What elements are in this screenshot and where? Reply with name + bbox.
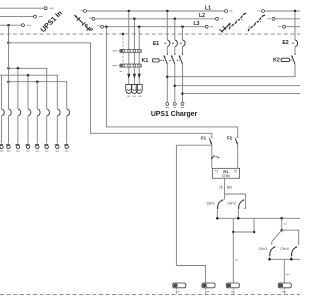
wire input phase 1 [0,7,54,9]
label L2 [199,13,205,19]
wire feeder drop [8,25,10,81]
wire charger lead A with plug arrow [127,67,130,84]
switch S2 city-power blades [220,23,231,32]
label branch 4 [26,150,30,152]
wire charger drop C [138,27,140,50]
wire rail1 [9,68,47,70]
connector branch 2 outlet [6,144,10,148]
connector branch 6 outlet [44,144,48,148]
connector charger plug C [136,85,142,94]
terminal S2 in phase3 [205,25,213,28]
wire gen phase3 [285,26,300,28]
coil K1a [202,283,215,288]
label plug C [138,95,141,97]
svg-text:F1: F1 [201,136,207,141]
contact CH-1 [217,194,225,218]
node L3 contactor tap [181,25,184,28]
wire branch 6 upper [46,68,48,108]
switch Q1 label UPS1 In [38,8,64,34]
terminal charger L3 [181,102,184,107]
svg-text:UPS1 In: UPS1 In [38,8,64,34]
label F2 [227,136,233,141]
node gen bus left [268,258,271,261]
connector charger plug A [126,85,132,94]
node gen bus right [290,258,293,261]
connector branch 3 outlet [15,144,19,148]
wire K2 dashed stub [283,288,285,294]
wire L3 run [103,26,205,28]
wire K1 pole2 drop upper [174,19,176,40]
wire E2-K2 link [294,47,296,54]
wire rail2 [0,75,57,77]
wire K1a dashed stub [205,288,207,294]
wire branch 8 lower [66,116,68,143]
symbol rectifier mark on F1 wire [211,155,219,158]
wire strip link C [138,53,140,65]
terminal S2 in phase2 [216,17,224,20]
wire control bus [217,217,300,219]
node rail1 left [7,67,10,70]
label K1a [206,291,210,293]
label L3 [193,21,199,27]
wire K1 pole1 drop upper [166,11,168,40]
contactor K2 link box [281,58,293,61]
contact CH-2 [238,200,244,219]
svg-text:CH=2: CH=2 [228,201,236,205]
terminal S2 out phase3 [278,25,285,28]
coil T1 [173,283,186,288]
terminal strip X2 [113,64,142,67]
label L tiny [120,71,123,73]
terminal charger L1 [166,102,169,107]
node F1 feed tap [7,42,10,45]
node control bus T tap [280,217,283,220]
label CH-1 [207,201,215,205]
svg-text:L1: L1 [205,5,211,11]
wire E2 drop upper [294,11,296,40]
terminal input phase 3 [22,24,25,27]
wire branch 2 upper [8,82,10,109]
svg-text:UPS1 Charger: UPS1 Charger [151,111,198,118]
label NO [227,186,232,190]
node L1 charger tap [128,10,131,13]
wire branch 7 upper [56,75,58,109]
node bus1 tap [166,75,169,78]
label plug B [133,95,136,97]
svg-text:K1: K1 [142,58,149,64]
contactor K2 blade [292,54,296,65]
label plug A [127,95,130,97]
breaker E1 pole1 arc [165,40,170,47]
svg-text:L2: L2 [199,13,205,19]
connector branch 8 outlet [64,144,68,148]
label branch 6 [45,150,49,152]
svg-text:CH=4: CH=4 [280,247,288,251]
svg-text:*1: *1 [215,170,218,174]
panel boundary dashed line bottom [0,294,300,296]
connector branch 7 outlet [55,144,59,148]
node L1 contactor tap [166,10,169,13]
terminal S2 out phase1 [257,10,264,13]
contactor K1 pole1 blade [164,54,168,65]
contactor K1 pole2 blade [171,54,175,65]
terminal S2 out phase2 [268,17,275,20]
breaker branch 5 arc [37,109,40,116]
wire input phase 2 [0,16,43,18]
terminal Q1 out phase1 [81,10,87,13]
wire branch 1 lower [1,116,3,143]
label branch 8 [65,150,69,152]
wire K1 dashed stub [232,288,234,294]
wire interlock right [253,218,255,232]
wire gen phase1 [264,10,300,12]
fuse-switch F1 blade [209,137,212,145]
wire K1 pole2 out [174,64,176,103]
node L2 contactor tap [174,18,177,21]
label K2 [273,58,280,64]
wire E1-K1 pole2 link [174,47,176,54]
breaker branch 4 arc [28,109,31,116]
connector branch 5 outlet [35,144,39,148]
wire input phase 3 [0,24,31,26]
node input phase3 tap [7,24,10,27]
node dashed tap [122,33,125,36]
relay R1 COM box [212,168,239,178]
breaker branch 3 arc [18,109,21,116]
label E2 [282,40,288,46]
wire bus2 [175,85,300,87]
wire L1 run [86,10,225,12]
wire L2 run [95,18,216,20]
label wire K2 coil [286,274,289,276]
wire branch 3 upper [17,68,19,108]
coil K1 [226,283,239,288]
wire interlock bottom [233,231,254,233]
wire branch 1 upper [1,75,3,109]
breaker branch 7 arc [57,109,60,116]
contactor K1 link box [152,59,179,62]
wire branch 3 lower [17,116,19,143]
node L3 charger tap [138,25,141,28]
breaker branch 8 arc [67,109,70,116]
svg-text:NO: NO [227,186,232,190]
svg-text:E1: E1 [153,41,159,47]
label E1 [153,41,159,47]
switch Q1 UPS1 In blades [75,15,93,31]
wire branch to T1 coil [176,145,211,265]
wire gen phase2 [275,18,300,20]
node rail2 tap [27,74,30,77]
label branch 5 [36,150,40,152]
contact CH-4 [291,242,299,260]
svg-text:R1: R1 [223,169,229,174]
contactor K1 pole3 blade [179,54,183,65]
wire strip link A [128,53,130,65]
wire F2 feed route [106,27,237,137]
svg-text:F2: F2 [227,136,233,141]
coil K2 [278,283,291,288]
node interlock right [253,231,256,234]
svg-text:COM: COM [222,174,230,178]
breaker E1 pole2 arc [172,40,177,47]
wire dashed link upper [122,34,124,49]
node bus2 tap [174,84,177,87]
wire F1 out [211,145,213,169]
node rail1 tap [17,67,20,70]
label S3 generator (rotated) [248,15,265,31]
svg-text:L3: L3 [193,21,199,27]
terminal strip X1 [113,49,142,52]
svg-text:CH=3: CH=3 [259,247,267,251]
terminal charger L2 [173,102,176,107]
terminal Q1 out phase3 [97,25,104,28]
terminal input phase 2 [34,15,37,18]
label S2 city power (rotated) [229,13,246,29]
wire F2 out [237,145,239,169]
svg-text:15: 15 [219,186,223,190]
breaker E1 pole3 arc [180,40,185,47]
label T1 wire [283,223,286,225]
breaker branch 2 arc [9,109,12,116]
wire T1 dashed stub [175,288,177,294]
svg-text:*2: *2 [234,170,237,174]
connector branch 4 outlet [25,144,29,148]
wire gen control drop [281,218,283,230]
node gen control split [280,229,283,232]
wire E1-K1 pole1 link [166,47,168,54]
wire gen control bus [270,258,301,260]
wire to K1 coil [232,232,234,283]
wire F1 feed route [9,25,212,137]
wire bus3 [183,93,301,95]
connector branch 1 outlet [0,144,3,148]
node rail3 tap [36,80,39,83]
contact CH-3 [269,242,275,260]
wire branch 4 lower [27,116,29,143]
label branch 7 [56,150,60,152]
node control bus CH1 [216,217,219,220]
label CH-4 [280,247,288,251]
wire branch 5 upper [36,82,38,109]
svg-text:K2: K2 [273,58,280,64]
wire charger drop B [133,19,135,50]
node interlock left [232,231,235,234]
wire strip link B [133,53,135,65]
wire branch coil2 [176,266,205,284]
label T1 [176,291,180,293]
wire charger lead C with plug arrow [138,67,141,84]
label branch 3 [16,150,20,152]
wire dashed link mid [122,53,124,65]
breaker branch 6 arc [47,109,50,116]
wire K1 pole3 out [182,64,184,103]
label branch 1 [0,150,3,152]
node gen phase1 to E2 [294,10,297,13]
node rail3 left [7,80,10,83]
wire branch 5 lower [36,116,38,143]
wire bus1 [167,64,295,77]
label UPS1 Charger [151,111,198,118]
wire contact feed bar [225,194,246,208]
node L2 charger tap [133,18,136,21]
wire charger lead B with plug arrow [133,67,136,84]
wire branch 6 lower [46,116,48,143]
wire to K2 coil [283,259,285,283]
connector charger plug B [131,85,137,94]
terminal Q1 out phase2 [89,17,95,20]
label branch 2 [7,150,11,152]
wire R1 to contacts [224,178,226,194]
wire gen split right [282,230,299,241]
breaker branch 1 arc [2,109,5,116]
label K2 coil [282,291,286,293]
wire branch 2 lower [8,116,10,143]
wire K1 pole1 out [166,64,168,103]
node L3 F2-feed tap [105,25,108,28]
node bus3 tap [181,92,184,95]
label K1 [142,58,149,64]
label F1 [201,136,207,141]
svg-text:E2: E2 [282,40,288,46]
label CH-3 [259,247,267,251]
label 15 [219,186,223,190]
wire E1-K1 pole3 link [182,47,184,54]
wire charger drop A [128,11,130,49]
fuse-switch F2 blade [235,137,238,145]
node control bus CH2 [237,217,240,220]
label K1 coil [231,291,235,293]
breaker E2 arc [292,40,297,47]
terminal S2 in phase1 [225,10,233,13]
wire K2 out drop [294,64,296,77]
wire rail3 [9,82,67,83]
wire K1 pole3 drop upper [182,27,184,40]
wire branch 4 upper [27,75,29,109]
label CH-2 [228,201,236,205]
svg-text:CH=1: CH=1 [207,201,215,205]
wire gen split left [272,230,282,241]
wire branch 8 upper [66,82,68,109]
label wire K1 coil [235,259,238,261]
label L1 [205,5,211,11]
terminal input phase 1 [44,7,47,10]
panel boundary dashed line top [0,33,300,35]
wire branch 7 lower [56,116,58,143]
wire interlock left [232,218,234,232]
